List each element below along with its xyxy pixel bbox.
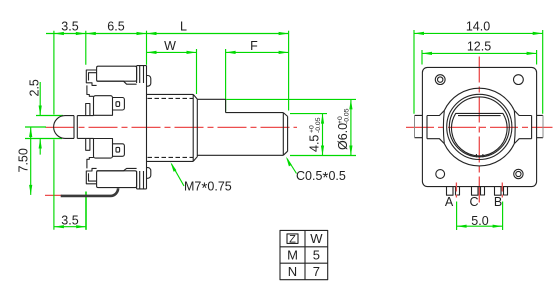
svg-text:Ø6.0: Ø6.0: [336, 123, 350, 150]
dim extension line at shaft end x=288.6: [288, 31, 290, 111]
terminal T2 main body: [94, 96, 125, 116]
svg-text:B: B: [494, 195, 502, 209]
svg-text:7: 7: [313, 264, 320, 279]
dim 3.5 top extension line at knob tip x=53.9: [53, 31, 55, 230]
encoder body square with rounded corners: [422, 67, 536, 186]
slot band right: [514, 111, 531, 144]
shaft circle with D-flat: [452, 113, 508, 155]
dim 5.0 extension lines: [457, 202, 503, 231]
terminal T4 (bottom) main body: [97, 168, 137, 187]
wire: red horizontal center line right view: [406, 126, 553, 128]
terminal T4 hook (left): [86, 168, 96, 183]
screw hole top-left (double circle): [435, 75, 445, 85]
svg-text:W: W: [310, 231, 323, 246]
svg-text:7.50: 7.50: [17, 148, 31, 172]
terminal T2 left tab: [86, 104, 90, 116]
boss side chamfer arc left: [442, 111, 445, 144]
lug R1 right side: [147, 76, 151, 87]
dim 5.0 line: [457, 225, 503, 228]
dim W second row: [147, 49, 197, 94]
wire: red vertical center line right view: [478, 57, 480, 205]
terminal T4 washers (right): [137, 171, 147, 189]
red center line pin B: [501, 183, 503, 201]
body right edge: [146, 66, 148, 189]
dim 12.5 extension lines: [422, 50, 537, 65]
dim 3.5 bottom: [54, 192, 86, 230]
leader C0.5*0.5: [286, 157, 297, 174]
svg-text:14.0: 14.0: [466, 20, 490, 34]
svg-text:3.5: 3.5: [61, 214, 78, 228]
terminal T1 (top) main body: [97, 66, 137, 84]
shaft end with chamfer C0.5: [283, 113, 287, 156]
dim 4.5 extension lines: [290, 114, 356, 156]
table cell Z boxed: [287, 234, 298, 246]
shaft flat (F section): [226, 112, 284, 114]
pin B: [495, 187, 508, 195]
svg-text:2.5: 2.5: [28, 79, 42, 96]
leader M7*0.75: [171, 162, 185, 186]
pin A: [447, 187, 460, 195]
lug R4 right side: [147, 168, 151, 179]
terminal T2 neck: [87, 85, 94, 96]
bushing thread dashed lines: [148, 98, 194, 157]
wire: red center mark of bottom blade terminal: [45, 194, 62, 196]
svg-text:Z: Z: [289, 234, 296, 246]
knob: push shaft bullet at left center: [54, 116, 94, 139]
label 4.5 +0/-0.05 rotated: [308, 117, 323, 152]
dim line top row 3.5 / 6.5 / L: [46, 32, 289, 35]
dim dia 6.0 vertical dimension line: [349, 99, 352, 155]
red center line pin A: [455, 183, 457, 201]
dim 2.5 vertical dimension line with outside arrows: [39, 82, 42, 155]
central boss outer circle (top and bottom arcs): [444, 88, 514, 166]
svg-text:4.5: 4.5: [308, 135, 322, 152]
terminal T3 hole: [116, 147, 120, 152]
boss side chamfer arc right: [513, 111, 516, 144]
screw hole bottom-right (double circle): [514, 169, 523, 178]
svg-text:6.5: 6.5: [107, 20, 124, 34]
shaft round section: [197, 99, 283, 155]
dim extension line at body right edge x=146.5: [146, 31, 148, 65]
terminal T3 left tab: [86, 139, 90, 151]
keyway at bottom of bushing: [476, 154, 483, 157]
terminal T1 hook (left): [86, 70, 96, 85]
dim extension line at body left edge x=85.8: [85, 31, 87, 230]
bushing outline M7: [147, 94, 198, 161]
svg-text:12.5: 12.5: [467, 40, 491, 54]
svg-text:-0.05: -0.05: [344, 108, 351, 124]
svg-text:C: C: [469, 195, 478, 209]
svg-text:M: M: [287, 248, 298, 263]
svg-text:W: W: [164, 39, 176, 53]
screw hole top-right: [514, 75, 524, 85]
terminal T2 hole: [116, 102, 120, 107]
dim 7.50 vertical: [29, 127, 32, 195]
dim 14.0 line: [414, 32, 543, 35]
dim 12.5 line: [422, 52, 537, 55]
terminal T1 washers (right): [137, 66, 147, 83]
wire: red horizontal center line left view: [46, 126, 298, 128]
terminal T3 main body (mirror below center): [94, 139, 125, 159]
bushing thread circles: [447, 94, 512, 159]
dim 2.5 knob diameter: extension lines: [25, 116, 63, 139]
svg-text:F: F: [250, 39, 258, 53]
svg-text:5: 5: [313, 248, 320, 263]
pin C: [472, 187, 485, 195]
svg-text:N: N: [288, 264, 297, 279]
svg-text:A: A: [445, 195, 454, 209]
dim dia 6.0 extension line: [226, 98, 356, 100]
svg-text:3.5: 3.5: [61, 20, 78, 34]
screw hole bottom-left: [436, 170, 445, 179]
dim F second row: [226, 49, 289, 112]
svg-text:-0.05: -0.05: [315, 117, 322, 133]
mounting tab left: [415, 115, 423, 137]
blade terminal bottom with bend: [61, 188, 118, 196]
svg-text:L: L: [180, 20, 187, 34]
slot band left: [427, 111, 444, 144]
dim 4.5 vertical dimension line: [321, 114, 324, 156]
mounting tab right: [537, 115, 543, 137]
svg-text:5.0: 5.0: [471, 214, 488, 228]
dim 14.0 extension lines: [414, 30, 543, 114]
table grid: [280, 230, 328, 279]
label dia6.0 +0/-0.05 rotated: [336, 108, 351, 150]
terminal T3 neck (bottom): [87, 158, 94, 169]
